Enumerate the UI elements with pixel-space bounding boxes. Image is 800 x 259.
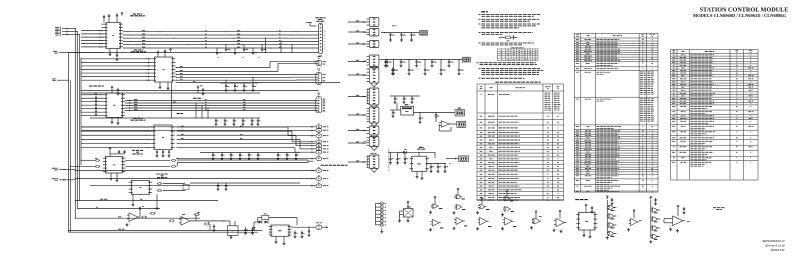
gate U22A (454, 188, 465, 199)
connector J5 boxed (457, 121, 466, 127)
notes paragraph 1 (479, 14, 542, 16)
connector column labels (364, 22, 366, 162)
connector P1 front panel (306, 18, 326, 56)
gate U24A (503, 190, 514, 201)
table reference circuit chart (477, 84, 564, 201)
node label AT wire (321, 164, 348, 166)
wire bottom-left runs (69, 199, 263, 232)
label DIFFERENTIAL BUS TRANSCEIVER U5 (132, 150, 143, 154)
regulator U300 5VDC (410, 147, 430, 171)
capacitor bank regulator right (430, 164, 449, 173)
gate U24B (501, 207, 514, 216)
connector P3 output (292, 223, 329, 230)
op-amp U11 (169, 212, 225, 225)
notes heading (481, 11, 488, 13)
gate U22C (453, 218, 468, 230)
transformer T100 (258, 214, 297, 225)
transceiver U6 differential bus (151, 125, 174, 150)
op-amp U26 spare (553, 210, 567, 232)
label DRIVER/RECEIVER U3 (89, 85, 104, 87)
label RS-232 BUS lower right U3 (131, 118, 146, 120)
label UNUSED GATES (575, 199, 588, 201)
wire bus group lower connectors (75, 170, 315, 187)
node TX DATA input labels (55, 27, 69, 35)
ic U2 RS-232 driver/receiver (152, 57, 176, 82)
ground U2 bottom (159, 82, 170, 90)
transceiver U5 differential bus (103, 157, 126, 174)
wire bus U3 outputs (125, 100, 319, 112)
capacitor bank C40-C44 (200, 152, 300, 160)
capacitor bank C500 row (385, 59, 464, 75)
ic U27 spare (576, 204, 597, 238)
capacitor bank right of U4 (190, 183, 300, 191)
connector J6 boxed (459, 156, 469, 162)
svg-text:MODELS CLN6960D / CLN6961D / C: MODELS CLN6960D / CLN6961D / CLN6886G (693, 13, 787, 18)
gate column U28 (606, 196, 617, 239)
label DIFFERENTIAL BUS TRANSCEIVER U4 (156, 174, 167, 178)
wire feeds to J400 column (348, 21, 367, 163)
gate U23A (476, 197, 490, 214)
gate U25 xor (530, 211, 542, 229)
wire bus group to small connectors (81, 126, 316, 160)
notes paragraph 6 (476, 63, 537, 65)
label plate sheet (713, 208, 725, 210)
capacitor bank above U2 (157, 48, 172, 57)
revision note (762, 239, 785, 252)
ic U1 RS-232 driver/receiver (81, 23, 123, 49)
diode CR300 (398, 149, 407, 153)
capacitor bank regulator left (389, 152, 408, 164)
wire bus U2 left to vertical bus (81, 58, 152, 81)
connector circles J7 column (376, 202, 387, 233)
node RX label (52, 79, 69, 81)
wire bus U1 to P1 (69, 31, 319, 53)
node SPI input label (53, 51, 69, 53)
capacitor bank C30-C35 (90, 118, 260, 126)
relay K100 box (222, 221, 255, 239)
gate U21B (429, 220, 444, 232)
connector J11 (316, 69, 326, 84)
gate U29 (627, 210, 642, 231)
capacitor C130 (308, 227, 311, 237)
power U3 top (111, 86, 120, 95)
resistor R125 ladder (204, 222, 216, 231)
ground U100 area (275, 231, 305, 245)
notes paragraph 7 (479, 69, 544, 75)
capacitor C60 right of J column (379, 60, 395, 76)
label vertical TO BOARD (388, 148, 391, 171)
notes figure resistor (499, 35, 518, 41)
gate column U30 (649, 196, 660, 243)
resistor pull-up row R10-R15 (216, 44, 266, 54)
ic U3 driver/receiver (95, 93, 125, 117)
resistor R45 right of U4 (157, 183, 189, 192)
node label TX AUDIO (193, 97, 201, 99)
node bottom-left labels (52, 168, 75, 180)
notes paragraph 4 (479, 32, 533, 34)
title STATION CONTROL MODULE (700, 7, 789, 14)
wire bus lines y90 (81, 90, 319, 94)
connector J12 (316, 93, 325, 113)
capacitor cluster around U700 (390, 96, 420, 118)
wire IC2 bottom drop (171, 82, 172, 119)
svg-text:(Sheet 6 of 6): (Sheet 6 of 6) (765, 243, 784, 247)
notes paragraph 2 (479, 19, 539, 21)
notes paragraph 3 (479, 24, 541, 28)
capacitor bank C510 row (463, 57, 471, 62)
svg-text:62502-UP: 62502-UP (771, 248, 786, 252)
notes mini table (497, 48, 538, 61)
ic U20 spare (398, 201, 413, 222)
wire U6 left feeds (81, 126, 151, 148)
notes paragraph 8 (479, 77, 525, 79)
resistor network box top (381, 26, 428, 42)
wire staircase U3 to bus (195, 102, 208, 118)
ground U3 bottom (111, 117, 120, 124)
subtitle MODELS (693, 13, 787, 18)
wire vertical bus (68, 28, 104, 232)
connector J10 (316, 57, 326, 66)
ground regulator bottom (416, 171, 424, 179)
wire U700 to J3 (413, 112, 455, 124)
label RS-232 BUS DRIVER/RECEIVER lower (131, 50, 146, 52)
gate U22B (453, 205, 466, 214)
table3 title (495, 81, 540, 83)
gate U23B (476, 218, 492, 231)
ground U4 bottom (132, 194, 159, 209)
diode CR110 (253, 221, 269, 230)
op-amp U10 (126, 206, 156, 226)
ic U100 modem (269, 225, 292, 236)
capacitor bank below U6 (156, 150, 171, 158)
wire U5 right (125, 158, 313, 167)
notes paragraph 5 (479, 43, 534, 45)
wire bus U3 left (81, 95, 103, 116)
ground U1 bottom (109, 49, 119, 61)
table parts list B (671, 50, 759, 181)
transceiver U4 differential bus (129, 181, 153, 195)
wire bus U2 outputs (176, 57, 341, 83)
capacitor C1 C2 above U1 (103, 13, 124, 23)
connector circles column (316, 124, 329, 188)
connector column J400 modules (367, 18, 379, 173)
power U5 top (109, 147, 126, 156)
node label MDM TXA (177, 112, 184, 114)
wire regulator top rail (388, 152, 446, 164)
ic U7 reset (401, 105, 414, 115)
connector J3 boxed (455, 110, 464, 116)
wire regulator output (446, 158, 459, 164)
power 10V node near U2 (197, 86, 205, 95)
table parts list A (574, 33, 658, 192)
connector labels right of J12 (323, 101, 325, 111)
capacitor cluster C20 below U2 bus (220, 77, 258, 92)
svg-text:6EPS39420A-O: 6EPS39420A-O (762, 239, 785, 243)
op-amp U31 spare (664, 205, 690, 232)
resistor R40 left of U5 (70, 158, 100, 167)
gate U24C (501, 218, 517, 231)
label J301 (458, 107, 462, 109)
label RS-232 BUS DRIVER/RECEIVER top (130, 14, 145, 16)
op-amp U8 comparator (439, 121, 457, 131)
ground U5 bottom (110, 173, 119, 182)
gate U21A (429, 196, 443, 213)
node label R100 (173, 101, 177, 103)
